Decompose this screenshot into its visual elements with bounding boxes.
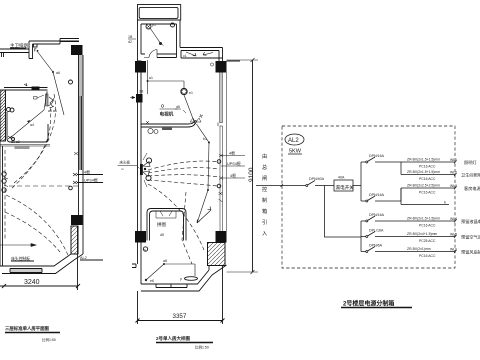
switch by door [34, 97, 38, 100]
bathroom door [144, 50, 157, 58]
bathroom top wall [138, 20, 181, 24]
svg-text:总: 总 [262, 163, 267, 171]
svg-text:a6: a6 [56, 71, 60, 75]
svg-text:DPN/16A: DPN/16A [369, 213, 385, 217]
svg-text:4根: 4根 [84, 170, 90, 175]
wire desk to junction [197, 124, 210, 190]
leader label right a [73, 173, 77, 176]
svg-text:ZR-BV(2x1.5+1.5)mm: ZR-BV(2x1.5+1.5)mm [407, 170, 440, 174]
floor drain circle [143, 247, 147, 251]
window right wall [80, 96, 82, 170]
bus bracket lower group [361, 221, 366, 252]
svg-text:d6: d6 [176, 105, 180, 109]
right wall upper multi-line [219, 48, 240, 62]
svg-text:PC16 ACC: PC16 ACC [419, 165, 436, 169]
wire bathroom [150, 28, 160, 43]
bottom wall chamfered mid [141, 265, 227, 291]
dashed wire into bottom room [182, 192, 192, 264]
svg-text:比例1:50: 比例1:50 [195, 345, 209, 350]
dashed arc lower [6, 195, 68, 255]
TV label [160, 108, 178, 110]
svg-text:闸: 闸 [262, 174, 267, 182]
svg-text:DPN/16A: DPN/16A [369, 193, 385, 197]
column top-right (black) [71, 45, 83, 55]
tick right wall [74, 152, 78, 155]
svg-text:电视机: 电视机 [160, 111, 174, 118]
dashed arc 2 [14, 107, 51, 183]
sockets top of room [7, 108, 11, 112]
wire zigzag by door [49, 97, 54, 108]
wall right vertical (grey core) [79, 55, 84, 96]
desk counter [141, 120, 197, 127]
svg-text:引: 引 [262, 218, 267, 226]
hatched pier right [71, 226, 78, 254]
svg-text:ZR-BV(2x1.5+1.5)mm: ZR-BV(2x1.5+1.5)mm [407, 217, 440, 221]
switch box top [34, 44, 38, 47]
column bottom-left mid (black) [135, 231, 146, 243]
svg-text:预留液晶电视: 预留液晶电视 [461, 218, 480, 225]
svg-text:4根: 4根 [229, 151, 235, 156]
border crossing ticks [281, 161, 457, 254]
wall right lower [79, 160, 84, 254]
dashed fan wires [148, 161, 219, 170]
svg-text:入: 入 [262, 231, 267, 237]
svg-text:床头控制板: 床头控制板 [11, 256, 30, 261]
svg-text:2号楼层电源分制箱: 2号楼层电源分制箱 [343, 300, 394, 308]
svg-text:PC25 ACC: PC25 ACC [419, 239, 436, 243]
dashed vertical left [4, 150, 6, 240]
breaker Q3 DPN/16A [366, 220, 368, 222]
wall tick marks right [219, 192, 223, 202]
svg-text:UPS4根: UPS4根 [227, 161, 241, 166]
leader label right 3 [219, 177, 223, 180]
wall vertical stub [29, 41, 33, 59]
svg-text:AL2: AL2 [80, 256, 87, 260]
splitter Q1 outputs [401, 162, 455, 175]
svg-text:a4: a4 [30, 123, 34, 127]
sconce symbols above desk right [190, 118, 201, 122]
svg-text:DPL/16A: DPL/16A [369, 229, 384, 233]
splitter Q2 outputs [401, 188, 455, 205]
svg-text:预留空气调节: 预留空气调节 [461, 234, 480, 241]
TV box on wall (black) [32, 87, 40, 91]
column right lower (black) [71, 215, 83, 225]
bottom-left wall step [132, 243, 141, 285]
svg-text:制: 制 [262, 196, 267, 204]
items on desk [162, 127, 172, 130]
leader label right b [73, 181, 77, 184]
column mid-right (black) [216, 61, 227, 73]
door notch right wall [218, 123, 223, 127]
svg-text:b: b [444, 201, 446, 205]
circle symbol left of column [210, 63, 213, 66]
bathroom left wall [138, 20, 142, 61]
wall top-left horizontal [0, 49, 29, 57]
socket bed head [8, 136, 12, 139]
svg-text:1B: 1B [128, 35, 133, 39]
svg-text:ZR-BV(2x2.5+2.5)mm: ZR-BV(2x2.5+2.5)mm [407, 184, 440, 188]
wire bottom room [146, 264, 195, 280]
wall lamps left [2, 172, 6, 176]
leader label right 2 [221, 165, 245, 167]
svg-text:b1: b1 [203, 137, 207, 141]
wall bottom chamfered [0, 254, 83, 274]
junction circle on wire [69, 186, 73, 190]
fan symbol bathroom [146, 24, 151, 29]
breaker Q1 DPN/16A [366, 161, 368, 163]
column bottom-right mid (black) [216, 231, 227, 243]
balcony duct top [138, 5, 181, 21]
switch symbol left [24, 83, 27, 86]
svg-text:AL2: AL2 [288, 138, 299, 144]
hatched column left [0, 90, 6, 141]
incoming main wire [256, 185, 306, 187]
svg-text:三层标准单人房平面图: 三层标准单人房平面图 [5, 325, 50, 332]
svg-text:d2: d2 [128, 40, 132, 44]
ceiling lamp symbol [181, 88, 187, 94]
svg-text:床头板: 床头板 [120, 160, 131, 165]
sensor circle bathroom right [171, 23, 175, 27]
svg-text:ZR-BV(2x4+1.5)mm: ZR-BV(2x4+1.5)mm [407, 232, 437, 236]
dashed enclosure box [282, 126, 455, 268]
wire top diagonal [37, 51, 64, 115]
AL2 box on wall (black) [136, 94, 143, 103]
svg-text:UPS4根: UPS4根 [84, 178, 98, 183]
svg-text:DPN/6A: DPN/6A [369, 244, 383, 248]
svg-text:d5: d5 [160, 233, 164, 237]
bus bracket upper group [361, 162, 366, 201]
wire lamp to wall [184, 95, 195, 124]
drop wire to lower group [325, 186, 362, 238]
svg-text:DPN/16A: DPN/16A [369, 154, 385, 158]
breaker Q4 DPL/16A [366, 236, 368, 238]
door leaf bedroom [46, 94, 49, 106]
room inner outline U [7, 112, 48, 142]
wall bedroom top [4, 88, 48, 91]
svg-text:箱: 箱 [262, 207, 267, 215]
svg-text:ZR-BV(2x1)mm: ZR-BV(2x1)mm [407, 247, 431, 251]
svg-text:预留风扇插座: 预留风扇插座 [461, 249, 480, 256]
dashed door arc big [10, 94, 56, 190]
dashed arc lower second [5, 212, 60, 252]
window sill bottom [10, 269, 42, 273]
svg-text:9100: 9100 [248, 167, 255, 182]
column mid-left (black) [135, 61, 146, 73]
svg-text:卫生间照明: 卫生间照明 [461, 172, 480, 179]
left wall mid [138, 73, 142, 232]
wire junction to bed area [197, 190, 211, 223]
lamp bathroom [159, 42, 162, 45]
RCD box 漏电开关 [334, 180, 353, 191]
bathroom bottom wall [138, 54, 177, 61]
svg-text:e1: e1 [189, 91, 193, 95]
basin symbol [185, 277, 198, 281]
leader label right 1 [219, 154, 223, 157]
svg-text:PC16 ACC: PC16 ACC [419, 177, 436, 181]
svg-text:5KW: 5KW [289, 149, 302, 155]
right wall lower continuation [220, 126, 223, 231]
svg-text:拼图: 拼图 [157, 221, 166, 228]
svg-text:PC16 ACC: PC16 ACC [419, 191, 436, 195]
svg-text:S: S [144, 248, 146, 252]
svg-text:3240: 3240 [24, 279, 40, 286]
panel name AL2 [285, 134, 304, 145]
socket circle right wall [217, 160, 221, 164]
svg-text:PC16 ACC: PC16 ACC [419, 224, 436, 228]
svg-text:a8: a8 [163, 259, 167, 263]
hatched pier bottom right [208, 243, 226, 266]
svg-text:p1: p1 [152, 23, 156, 27]
svg-text:a1: a1 [149, 76, 153, 80]
breaker Q2 DPN/16A [366, 200, 368, 202]
svg-text:PC16 ACC: PC16 ACC [419, 254, 436, 258]
svg-text:比例1:50: 比例1:50 [42, 337, 56, 342]
wall top horizontal [29, 39, 79, 45]
svg-text:40A: 40A [338, 176, 345, 180]
breaker Q5 DPN/6A [366, 251, 368, 253]
svg-text:照明灯: 照明灯 [464, 159, 477, 166]
svg-text:e6: e6 [150, 279, 154, 283]
window sill bottom mid [156, 284, 187, 288]
svg-text:漏电开关: 漏电开关 [336, 184, 355, 191]
wire bedroom diagonal [10, 92, 47, 138]
main breaker DPN/40A [306, 185, 308, 187]
svg-text:2号单人房大样图: 2号单人房大样图 [156, 335, 191, 342]
bench grey [15, 147, 30, 150]
svg-text:由: 由 [262, 152, 267, 160]
svg-text:客房电源: 客房电源 [464, 185, 480, 192]
closet arrows [186, 52, 213, 56]
wire door to junction [148, 60, 185, 94]
dashed wire horizontal [9, 185, 78, 187]
svg-text:3357: 3357 [173, 313, 187, 320]
wire arrow bottom [0, 244, 36, 247]
dimension 9100 [252, 60, 254, 272]
svg-text:DPN/40A: DPN/40A [309, 177, 325, 181]
svg-text:m: m [121, 167, 124, 171]
svg-text:c1: c1 [183, 54, 187, 58]
svg-text:控: 控 [262, 185, 267, 193]
svg-text:4根: 4根 [230, 173, 236, 178]
svg-text:p: p [180, 277, 182, 281]
thermostat circle right wall [69, 80, 73, 84]
wall lamp cluster left [140, 164, 143, 175]
closet top-right walls [180, 48, 223, 59]
partition line under room [0, 145, 50, 147]
room outline U middle plan [147, 209, 186, 241]
svg-text:ZR-BV(2x1.5+1.5)mm: ZR-BV(2x1.5+1.5)mm [407, 158, 440, 162]
bathroom right wall [177, 20, 181, 58]
svg-text:1B: 1B [139, 90, 144, 94]
wall left vertical [0, 90, 3, 266]
